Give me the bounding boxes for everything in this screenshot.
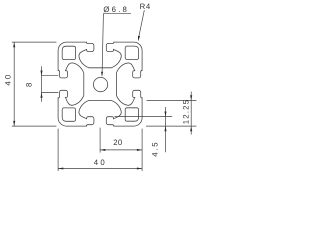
- dim 40 left extension lines: [12, 42, 57, 126]
- dim 40 bottom extension lines: [58, 129, 142, 171]
- T-slot left: [58, 63, 84, 105]
- svg-text:Ø6.8: Ø6.8: [103, 5, 129, 14]
- profile outer boundary: [58, 42, 142, 126]
- dim 8 extension lines: [42, 76, 59, 93]
- corner hole bottom-right: [125, 108, 138, 121]
- T-slot top: [79, 42, 121, 68]
- dim 20 extension line: [99, 128, 101, 153]
- T-slot right: [116, 63, 142, 105]
- corner hole top-right: [125, 46, 138, 59]
- svg-text:12.25: 12.25: [182, 99, 191, 125]
- dim 12.25 dimension line: [190, 92, 192, 135]
- svg-text:20: 20: [113, 138, 123, 147]
- svg-text:4.5: 4.5: [150, 141, 159, 157]
- svg-text:8: 8: [24, 83, 33, 87]
- dim 4.5 extension line: [115, 116, 173, 118]
- center hole Ø6.8: [93, 77, 107, 91]
- corner hole bottom-left: [62, 108, 75, 121]
- dim 8 dimension line: [41, 66, 43, 102]
- leader R4: [139, 10, 144, 36]
- svg-text:R4: R4: [140, 2, 151, 11]
- leader Ø6.8: [102, 14, 131, 72]
- dim 40 left dimension line: [13, 42, 15, 126]
- T-slot bottom: [79, 100, 121, 126]
- dim 20 dimension line: [100, 149, 142, 151]
- svg-text:40: 40: [94, 158, 107, 167]
- dim 12.25 extension lines: [146, 100, 196, 126]
- corner hole top-left: [62, 46, 75, 59]
- dim 40 bottom dimension line: [58, 168, 142, 170]
- dim 4.5 dimension line: [165, 107, 167, 152]
- svg-text:40: 40: [4, 73, 13, 86]
